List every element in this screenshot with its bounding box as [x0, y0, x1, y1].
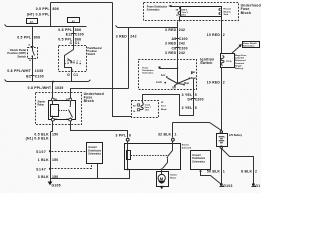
svg-text:Block: Block — [161, 109, 168, 111]
label 32 BLK 1 — [158, 132, 177, 136]
relay pins — [52, 98, 72, 121]
solenoid contact arm — [163, 144, 173, 169]
label Underhood Fuse Block — [241, 4, 261, 15]
terminal M dot — [161, 168, 163, 170]
label Power Distribution Schematics (in fuse block) — [147, 6, 168, 12]
svg-text:Relay: Relay — [38, 103, 45, 106]
svg-text:C100: C100 — [75, 32, 84, 36]
svg-text:Lock: Lock — [156, 81, 162, 84]
terminal S — [126, 138, 129, 141]
svg-text:0.8 PPL/WHT: 0.8 PPL/WHT — [7, 69, 31, 73]
svg-text:150: 150 — [52, 132, 58, 136]
svg-text:242: 242 — [130, 35, 136, 39]
fuse block I/P dashed box (crank fuse) — [132, 101, 159, 118]
underhood fuse block dashed box (top right) — [144, 3, 239, 21]
relay actuation dashed link — [59, 110, 68, 112]
switch ignition rotary contacts — [177, 60, 179, 83]
wire 50 BLK 2 branch — [222, 149, 254, 184]
relay coil — [52, 101, 54, 119]
svg-text:Remote: Remote — [224, 8, 232, 11]
label Ground Distribution Schematics — [88, 147, 101, 155]
connector A7 cavity box — [27, 19, 38, 24]
svg-text:Schematics: Schematics — [192, 160, 205, 163]
svg-text:0.5 PPL: 0.5 PPL — [17, 36, 31, 40]
wire power distribution stub — [160, 68, 178, 70]
svg-text:12V Battery: 12V Battery — [229, 134, 243, 137]
svg-text:S147: S147 — [36, 167, 46, 171]
label 8 BLK 2 — [241, 170, 252, 174]
svg-text:G103: G103 — [223, 184, 232, 188]
PNP gear position dots P R N D 2 1 — [64, 62, 81, 64]
svg-text:Starter: Starter — [170, 174, 177, 177]
label 3 PPL 6 — [116, 134, 132, 138]
svg-text:806: 806 — [34, 36, 40, 40]
svg-text:Ground: Ground — [88, 147, 97, 149]
wire PNP output to bus — [71, 72, 73, 82]
svg-text:Motor: Motor — [170, 177, 176, 180]
svg-text:806: 806 — [75, 28, 81, 32]
label 0.5 PPL 806 CPP — [17, 36, 40, 40]
fuse IGN A 30A — [179, 7, 181, 9]
svg-text:806: 806 — [53, 7, 59, 11]
solenoid plunger dashed — [131, 155, 169, 157]
label I/P Fuse Block — [161, 102, 168, 111]
label 0.5 BLK 150 — [34, 132, 58, 136]
svg-text:0.5 PPL: 0.5 PPL — [36, 7, 50, 11]
wire 50 BLK 1 battery negative — [221, 149, 223, 184]
label Ground Distribution Schematics right — [192, 155, 205, 163]
svg-text:242: 242 — [179, 28, 185, 32]
inner stud box — [181, 7, 222, 17]
svg-text:32 BLK: 32 BLK — [158, 132, 171, 136]
svg-text:B3: B3 — [133, 106, 135, 108]
svg-text:Battery): Battery) — [235, 67, 244, 70]
label Mega Fuse (Labeled Enhanced Traction/ Single Battery) — [235, 55, 247, 70]
relay pin labels — [55, 99, 68, 121]
wire arrow to power distribution — [171, 6, 180, 8]
fuse Mega Fuse box — [221, 54, 235, 68]
label Power Distribution Schematics (in ignition switch) — [142, 67, 154, 74]
wire CPP branch 0.5 PPL 806 — [32, 27, 34, 48]
wire 806 down to crank fuse — [113, 89, 132, 117]
starter solenoid box — [125, 144, 181, 170]
svg-text:3 YEL: 3 YEL — [182, 106, 193, 110]
wire 3 RED 242 drop from bus to relay feed — [128, 28, 130, 89]
label 0.8 PPL/WHT 1035 — [28, 86, 64, 90]
svg-text:Traction/: Traction/ — [235, 62, 245, 65]
wire vertical left drop to connector bus — [50, 3, 52, 27]
wire bus left end hook — [5, 25, 7, 27]
label 3 BLK 150 — [38, 175, 59, 179]
ground G105 — [48, 182, 53, 186]
svg-text:1: 1 — [223, 170, 225, 174]
switch CPP contacts — [33, 48, 35, 59]
svg-text:M: M — [160, 176, 164, 181]
svg-text:Switch: Switch — [200, 61, 212, 65]
label Park/Neutral Position Switch — [88, 47, 102, 56]
connector tick C200 — [192, 98, 196, 100]
svg-text:0.8 PPL: 0.8 PPL — [58, 28, 72, 32]
svg-text:2: 2 — [223, 81, 225, 85]
label Ignition Switch — [200, 57, 214, 65]
svg-text:G1: G1 — [255, 184, 260, 188]
svg-text:C1: C1 — [73, 73, 78, 77]
label 0.5 PPL 806 top — [27, 7, 59, 17]
wire relay 87 output 3 PPL 6 to solenoid S — [71, 121, 128, 138]
label 10 RED 2 lower — [207, 81, 221, 85]
svg-text:1: 1 — [175, 132, 177, 136]
switch PNP contacts — [65, 46, 74, 72]
relay K starter relay box — [49, 101, 76, 120]
svg-text:3 BLK: 3 BLK — [38, 175, 49, 179]
svg-text:8 BLK: 8 BLK — [241, 170, 252, 174]
ignition switch dashed box — [139, 60, 197, 90]
svg-text:Bat: Bat — [191, 71, 195, 74]
svg-text:0.8 PPL/WHT: 0.8 PPL/WHT — [28, 86, 52, 90]
label 10 RED 2 upper — [207, 33, 221, 37]
motor case ground arrow — [160, 186, 164, 189]
svg-text:C100: C100 — [35, 74, 44, 78]
svg-text:C200: C200 — [179, 46, 188, 50]
junction 806 riser/relay feed — [112, 88, 114, 90]
svg-text:Schematics: Schematics — [142, 72, 154, 75]
svg-text:3 RED: 3 RED — [165, 51, 177, 55]
connector B1 C100 — [26, 74, 44, 78]
svg-text:Run: Run — [184, 82, 189, 85]
label 1 BLK 150 — [38, 158, 59, 162]
remote battery stud terminals — [219, 9, 221, 15]
pin B tick — [31, 58, 34, 60]
node splice bus 1035 — [7, 81, 89, 83]
svg-text:242: 242 — [179, 42, 185, 46]
labels 3 RED 242 / A8 C100 / C8 C200 stack — [165, 28, 177, 55]
terminal B — [172, 138, 175, 141]
svg-text:2: 2 — [77, 61, 78, 63]
svg-text:3 PPL: 3 PPL — [116, 134, 127, 138]
svg-text:Starter: Starter — [182, 144, 189, 147]
svg-text:Battery: Battery — [224, 10, 232, 13]
label Starter Motor — [170, 174, 177, 180]
callout box Power Distribution Schematics (right) — [243, 42, 260, 48]
fuse Crank 10A — [141, 101, 143, 110]
wire 3 RED 242 ignition feed — [177, 22, 179, 60]
battery 12V — [220, 131, 222, 133]
svg-text:2: 2 — [255, 170, 257, 174]
svg-text:Distribution: Distribution — [192, 157, 205, 160]
connector B1 C100 tick — [31, 75, 35, 77]
svg-text:Off: Off — [172, 86, 176, 89]
wire 3 YEL 5 to crank fuse — [143, 90, 194, 116]
wire relay 30 feed riser — [71, 89, 129, 99]
svg-text:Acc: Acc — [161, 74, 166, 77]
svg-text:10 RED: 10 RED — [207, 81, 221, 85]
svg-text:Block: Block — [84, 99, 94, 103]
node connector bus C100 left segment — [7, 26, 87, 28]
wire top horizontal PPL 806 feed — [51, 2, 113, 4]
wire dashed link S107 to ground callout — [52, 151, 87, 153]
svg-text:1035: 1035 — [55, 86, 64, 90]
svg-text:C1: C1 — [75, 41, 80, 45]
starter motor box — [157, 172, 169, 187]
ground G101 — [252, 183, 255, 186]
svg-text:1 BLK: 1 BLK — [38, 158, 49, 162]
svg-text:Switch: Switch — [17, 54, 26, 58]
svg-text:3 RED: 3 RED — [116, 35, 128, 39]
svg-text:1035: 1035 — [35, 69, 44, 73]
pin G C1 — [67, 73, 78, 77]
connector E11 C100 tick — [72, 33, 76, 35]
svg-text:Power Distrib.: Power Distrib. — [243, 42, 257, 45]
wire ignition start output — [193, 79, 195, 90]
solenoid S wire and pull-in coil — [127, 144, 129, 170]
svg-text:10 RED: 10 RED — [207, 33, 221, 37]
wire relay coil feed 0.8 PPL/WHT 1035 — [52, 82, 54, 99]
label Clutch Pedal Position (CPP) Switch — [7, 48, 26, 58]
svg-text:6: 6 — [129, 134, 131, 138]
svg-text:87: 87 — [66, 119, 68, 121]
splice S107 — [49, 150, 51, 152]
wire battery positive to solenoid B and battery — [173, 123, 222, 131]
pin A tick — [31, 46, 34, 48]
ground G103 — [220, 183, 223, 186]
svg-text:242: 242 — [179, 51, 185, 55]
svg-text:Distribution: Distribution — [142, 69, 154, 72]
wire relay 85 ground 0.5 BLK 150 — [51, 121, 53, 183]
callout box Ground Distribution Schematics (left) — [87, 143, 103, 164]
svg-text:D4: D4 — [187, 97, 192, 101]
wire callout to G103 — [200, 170, 202, 172]
wire 10 RED 2 battery feed — [221, 17, 223, 54]
svg-text:(H1) 0.8 BLK: (H1) 0.8 BLK — [26, 136, 49, 140]
connector A2 cavity box — [68, 18, 80, 23]
svg-text:85: 85 — [55, 119, 57, 121]
svg-text:150: 150 — [52, 158, 58, 162]
labels 3 YEL 5 / D4 C200 stack — [182, 93, 193, 110]
label Starter Relay — [38, 100, 46, 106]
motor M — [161, 170, 163, 175]
svg-text:S107: S107 — [36, 150, 46, 154]
label Underhood Fuse Block — [84, 92, 104, 103]
svg-text:Solenoid: Solenoid — [182, 148, 192, 150]
svg-text:175 A: 175 A — [226, 60, 232, 63]
wire long vertical 806 riser — [112, 3, 114, 90]
label Starter Solenoid — [182, 144, 192, 150]
svg-text:86: 86 — [55, 99, 57, 101]
splice S147 — [49, 168, 51, 170]
svg-text:5: 5 — [195, 93, 197, 97]
svg-text:Schematics: Schematics — [147, 9, 160, 12]
svg-text:30: 30 — [66, 99, 68, 101]
svg-text:3 RED: 3 RED — [165, 28, 177, 32]
svg-text:5: 5 — [195, 106, 197, 110]
wire 10 RED 2 to battery — [221, 68, 223, 131]
label 50 BLK 1 — [207, 170, 220, 174]
svg-text:Ground: Ground — [192, 155, 201, 157]
wire bus2 left end hook — [116, 26, 118, 28]
fuse block pins B3 24 — [133, 106, 136, 114]
label Power Distribution Schematics callout — [243, 42, 257, 48]
park/neutral position switch box — [59, 46, 87, 72]
svg-text:B1: B1 — [26, 74, 31, 78]
svg-text:Stud: Stud — [224, 13, 229, 16]
wire arrow mega fuse to callout — [232, 46, 241, 54]
svg-text:E11: E11 — [66, 32, 73, 36]
wire ground callout riser — [97, 164, 99, 179]
node connector bus right segment — [118, 27, 178, 29]
label 3 RED 242 — [116, 35, 137, 39]
clutch pedal position switch box — [28, 48, 38, 59]
svg-text:1: 1 — [80, 61, 81, 63]
svg-text:3 YEL: 3 YEL — [182, 93, 193, 97]
connector ticks C100 C200 — [176, 39, 180, 48]
relay contact — [70, 101, 72, 106]
wire CPP output 0.8 PPL/WHT 1035 — [32, 59, 34, 82]
label (H1) 0.8 BLK — [26, 136, 49, 140]
underhood fuse block dashed box (starter relay) — [36, 93, 82, 125]
svg-text:C200: C200 — [195, 97, 204, 101]
wire PNP branch drop — [73, 27, 75, 46]
svg-text:Switch: Switch — [88, 53, 96, 56]
svg-text:Block: Block — [241, 11, 251, 15]
svg-text:(HT) 0.8 PPL: (HT) 0.8 PPL — [27, 13, 50, 17]
callout box Ground Distribution Schematics (right) — [191, 151, 211, 170]
labels 0.8 PPL 806 / E11 C100 / 0.5 PPL 806 / C C1 — [58, 28, 84, 45]
svg-text:C: C — [70, 41, 73, 45]
label 0.8 PPL/WHT 1035 — [7, 69, 43, 73]
svg-text:Power Distribution: Power Distribution — [147, 6, 168, 9]
label Remote Battery Stud — [224, 8, 232, 16]
svg-text:2: 2 — [223, 33, 225, 37]
svg-text:Distribution: Distribution — [88, 149, 101, 152]
svg-text:Schematics: Schematics — [243, 45, 255, 48]
node PNP output junction — [71, 69, 73, 71]
svg-text:50 BLK: 50 BLK — [207, 170, 220, 174]
svg-text:10 A: 10 A — [145, 108, 150, 111]
svg-text:G105: G105 — [52, 184, 61, 188]
svg-text:G: G — [67, 73, 70, 77]
svg-text:3 RED: 3 RED — [165, 42, 177, 46]
svg-text:Fuse: Fuse — [161, 106, 167, 108]
ground run solenoid to G105 — [51, 170, 130, 179]
svg-text:Schematics: Schematics — [88, 153, 101, 156]
wire dashed link S147 to ground callout — [52, 164, 92, 169]
junction dot relay drop — [52, 81, 54, 83]
svg-text:50: 50 — [176, 15, 178, 17]
